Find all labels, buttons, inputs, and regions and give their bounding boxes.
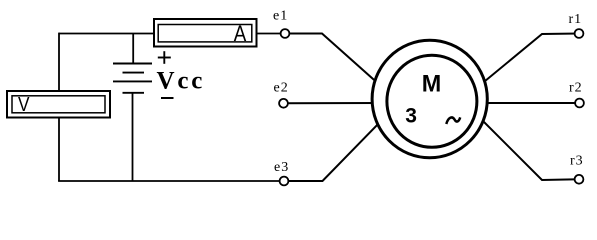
svg-text:r2: r2 [569,81,583,96]
node e3 [280,177,289,186]
label - (battery negative) [161,97,174,99]
svg-text:Vcc: Vcc [157,68,206,95]
svg-text:e3: e3 [274,160,289,175]
wire e1 to motor [285,34,382,88]
ammeter A [154,19,257,47]
node e2 [279,99,288,108]
motor M1 (3-phase AC motor) [372,40,487,157]
battery Vcc [113,64,152,93]
svg-text:e1: e1 [273,9,288,24]
svg-text:r1: r1 [569,12,583,27]
wire battery bottom stub [132,93,134,181]
svg-text:e2: e2 [274,81,289,96]
wire motor to r2 [481,102,580,104]
node e1 [281,29,290,38]
svg-text:A: A [234,21,247,46]
wire bottom bus (node to e3) [58,180,281,182]
svg-text:V: V [18,94,30,116]
label + (battery positive) [158,51,171,64]
node r1 [575,29,584,38]
wire top bus from left node to ammeter [59,33,153,35]
node r3 [575,175,584,184]
voltmeter V [7,91,110,118]
wire e3 to motor [284,120,382,181]
wire motor to r1 [479,34,579,87]
svg-text:r3: r3 [570,154,584,169]
wire left vertical lower (voltmeter to bottom bus) [58,118,60,181]
svg-text:3: 3 [405,104,417,127]
wire e2 to motor [284,102,381,104]
wire left vertical upper (top bus to voltmeter) [58,33,60,90]
svg-text:M: M [422,70,442,97]
wire ammeter to e1 [257,33,286,35]
node r2 [575,99,584,108]
wire motor to r3 [479,117,579,180]
wire battery top stub [132,34,134,64]
